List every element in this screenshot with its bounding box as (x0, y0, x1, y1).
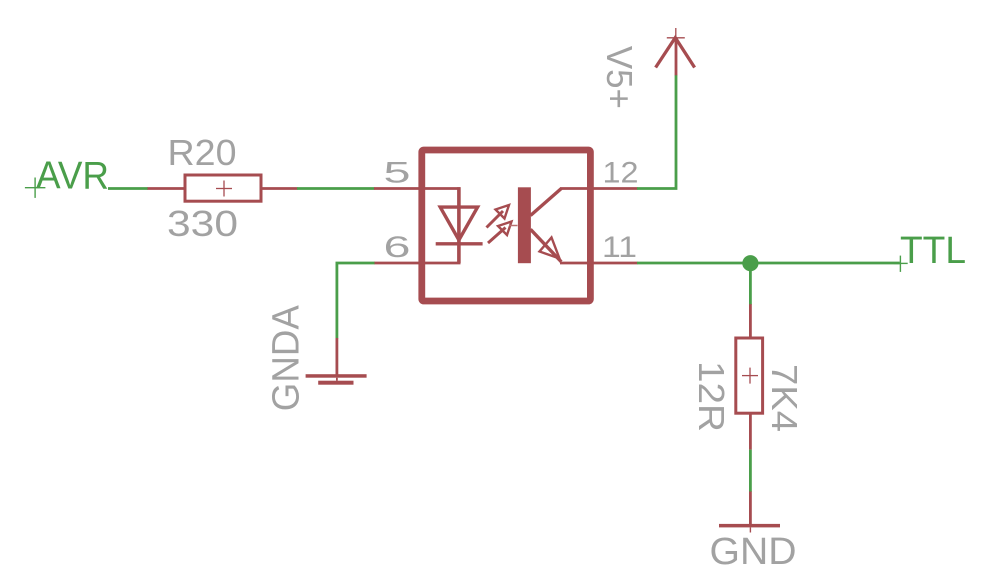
optocoupler OK1 pin 5 lead (374, 187, 461, 190)
wire net +5V (pin 12 to supply) (637, 75, 676, 189)
svg-text:11: 11 (602, 231, 637, 264)
phototransistor Q1 emitter line (531, 229, 562, 261)
ground GNDA mid line (336, 378, 338, 381)
wire net N$1 (R20 to OK1 pin 5) (297, 187, 375, 190)
ground GNDA bar 1 (306, 374, 367, 378)
wire net AVR (AVR label to R20 pin 1) (108, 187, 148, 190)
ground GNDA bar 2 (318, 381, 353, 385)
resistor R21 pin 2 lead (749, 414, 752, 450)
ground GNDA pin stub (335, 338, 338, 375)
svg-text:12: 12 (603, 157, 639, 190)
svg-text:TTL: TTL (900, 230, 966, 272)
ground GND pin stub (749, 492, 752, 525)
resistor R20 body (185, 175, 261, 201)
wire net TTL (pin 11 to TTL label) (637, 262, 900, 265)
svg-text:GND: GND (710, 531, 797, 573)
svg-text:12R: 12R (691, 361, 732, 432)
light arrow 1 shaft (487, 211, 504, 228)
svg-text:GNDA: GNDA (266, 305, 308, 412)
resistor R21 pin 1 lead (749, 304, 752, 337)
junction node (TTL / R21) (742, 255, 758, 271)
svg-text:R20: R20 (168, 132, 237, 173)
LED D1 cathode bar (436, 242, 483, 245)
supply +5V arrow symbol (656, 38, 695, 68)
optocoupler OK1 pin 11 lead (560, 262, 638, 265)
light arrow 2 shaft (488, 228, 506, 244)
phototransistor Q1 emitter arrow head (540, 238, 560, 259)
optocoupler OK1 pin 12 lead (560, 187, 638, 190)
svg-text:5: 5 (384, 157, 411, 190)
supply +5V origin cross (667, 28, 685, 48)
LED anode rail (vertical) (457, 187, 461, 263)
resistor R20 pin 1 lead (148, 187, 185, 190)
light arrow 1 head (496, 205, 510, 219)
ground GND bar (719, 524, 780, 528)
optocoupler OK1 body box (422, 150, 591, 301)
svg-text:6: 6 (384, 231, 411, 264)
resistor R21 origin cross (742, 368, 758, 384)
light arrow 2 head (498, 222, 512, 236)
LED D1 triangle (440, 207, 477, 240)
svg-text:7K4: 7K4 (764, 364, 805, 432)
wire net GNDA (pin 6 to corner and down) (337, 263, 375, 339)
phototransistor Q1 collector line (531, 189, 562, 216)
wire net TTL (junction down to R21) (749, 263, 752, 305)
svg-text:AVR: AVR (36, 154, 109, 197)
wire net GND (R21 to GND symbol) (749, 450, 752, 492)
supply +5V pin stub (675, 38, 678, 76)
svg-text:330: 330 (167, 203, 238, 244)
svg-text:V5+: V5+ (599, 46, 640, 109)
node TTL cross marker (894, 256, 908, 272)
base tick (509, 225, 518, 227)
phototransistor Q1 base bar (518, 187, 531, 263)
resistor R21 body (736, 338, 763, 413)
ground GND tail (749, 527, 751, 532)
resistor R20 origin cross (216, 181, 232, 197)
node AVR cross marker (25, 178, 46, 198)
optocoupler OK1 pin 6 lead (374, 262, 461, 265)
resistor R20 pin 2 lead (262, 187, 298, 190)
